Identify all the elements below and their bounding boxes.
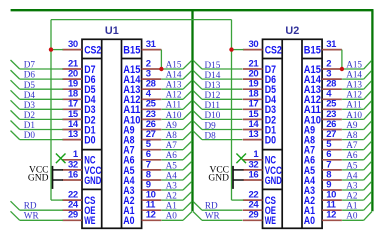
wire D0 to U1 with bus entry [11, 131, 64, 140]
svg-text:A3: A3 [346, 180, 358, 190]
wire U1 A0 to central bus with entry [162, 212, 192, 221]
wire U1 A2 to central bus with entry [162, 191, 192, 200]
svg-text:A0: A0 [346, 211, 358, 221]
U1 pin 25 A11 [123, 99, 161, 117]
svg-text:A9: A9 [166, 120, 178, 130]
U1 pin 9 A3 [123, 179, 161, 197]
U2 pin 29 WE [243, 210, 276, 228]
wire D15 from central bus to U2 [193, 60, 243, 69]
wire D4 to U1 with bus entry [11, 90, 64, 99]
svg-text:12: 12 [326, 210, 336, 221]
U1 pin 13 D0 [62, 129, 95, 147]
wire D11 from central bus to U2 [193, 101, 243, 110]
wire U1 A3 to central bus with entry [162, 181, 192, 190]
U2 pin 14 D1 [243, 119, 276, 136]
wire D1 to U1 with bus entry [11, 121, 64, 130]
IC U1 body [82, 39, 142, 228]
wire U2 A11 to right bus with entry [342, 101, 372, 110]
wire D10 from central bus to U2 [193, 111, 243, 120]
U1 pin 26 A9 [123, 119, 161, 136]
wire U1 A6 to central bus with entry [162, 151, 192, 160]
svg-text:GND: GND [84, 175, 101, 187]
U2 pin 2 A15 [304, 58, 342, 76]
wire U2 A14 to right bus with entry [342, 70, 372, 79]
wire CS2/CS chain U1 [51, 20, 63, 201]
svg-text:12: 12 [146, 210, 156, 221]
wire WR from central bus to U2 [193, 212, 243, 221]
central vertical bus [191, 10, 193, 211]
svg-text:13: 13 [249, 129, 259, 140]
U1 pin 4 A12 [123, 89, 161, 107]
wire U1 A13 to central bus with entry [162, 80, 192, 89]
svg-text:D7: D7 [24, 60, 36, 70]
U2 pin 5 A7 [304, 139, 342, 157]
U2 pin 8 A4 [304, 169, 342, 187]
U1 pin 1 NC [62, 149, 95, 167]
U2 pin 19 D5 [243, 79, 276, 97]
svg-text:U2: U2 [285, 25, 299, 37]
wire U1 A15 to central bus with entry [162, 60, 192, 69]
U1 pin 2 A15 [123, 58, 161, 76]
power net GND U1 [28, 174, 63, 184]
wire U2 A13 to right bus with entry [342, 80, 372, 89]
U1 pin 28 A13 [123, 79, 161, 97]
wire D6 to U1 with bus entry [11, 70, 64, 79]
svg-text:GND: GND [208, 174, 229, 184]
U1 pin 32 VCC [62, 159, 101, 177]
svg-text:WE: WE [265, 215, 277, 227]
U1 pin 11 A1 [123, 200, 161, 218]
U1 pin 10 A2 [123, 190, 161, 208]
wire RD from central bus to U2 [193, 201, 243, 210]
svg-text:B15: B15 [123, 45, 140, 57]
svg-text:D0: D0 [265, 135, 276, 147]
wire U2 A4 to right bus with entry [342, 171, 372, 180]
U1 pin 29 WE [62, 210, 95, 228]
wire D3 to U1 with bus entry [11, 100, 64, 109]
svg-text:A11: A11 [346, 100, 362, 110]
U1 pin 22 CS [62, 190, 95, 208]
U1 pin 18 D4 [62, 89, 96, 107]
power net GND U2 [208, 174, 243, 184]
wire U1 A11 to central bus with entry [162, 101, 192, 110]
svg-text:D12: D12 [205, 90, 221, 100]
junction U1 CS2 [49, 47, 53, 51]
wire U2 A5 to right bus with entry [342, 161, 372, 170]
svg-text:A6: A6 [346, 150, 358, 160]
wire D9 from central bus to U2 [193, 121, 243, 130]
svg-text:GND: GND [265, 175, 282, 187]
U2 pin 15 D2 [243, 109, 276, 127]
svg-text:D6: D6 [24, 70, 36, 80]
U2 pin 1 NC [243, 149, 276, 167]
wire RD to U1 with bus entry [11, 201, 64, 210]
U2 pin 25 A11 [304, 99, 342, 117]
U1 pin 6 A6 [123, 149, 161, 167]
U1 pin 27 A8 [123, 129, 161, 147]
U2 pin 12 A0 [304, 210, 342, 228]
wire D12 from central bus to U2 [193, 91, 243, 100]
U1 pin 20 D6 [62, 69, 95, 87]
svg-text:A0: A0 [304, 215, 315, 227]
svg-text:16: 16 [68, 169, 78, 180]
wire U2 A8 to right bus with entry [342, 131, 372, 140]
U1 pin 16 GND [62, 169, 101, 187]
power bracket U2 [232, 166, 234, 189]
junction U2 CS2 [229, 47, 233, 51]
svg-text:D15: D15 [205, 60, 221, 70]
svg-text:D5: D5 [24, 80, 36, 90]
wire U2 A0 to right bus with entry [342, 212, 372, 221]
U1 pin 24 OE [62, 200, 95, 218]
wire CS2/CS chain U2 [232, 20, 244, 201]
power net VCC U1 [29, 166, 63, 176]
U1 pin 19 D5 [62, 79, 95, 97]
svg-text:D14: D14 [205, 70, 221, 80]
svg-text:GND: GND [28, 174, 49, 184]
svg-text:A10: A10 [346, 110, 362, 120]
U2 pin 32 VCC [243, 159, 282, 177]
wire U1 A14 to central bus with entry [162, 70, 192, 79]
U2 pin 3 A14 [304, 69, 342, 87]
U2 pin 28 A13 [304, 79, 342, 97]
svg-text:WE: WE [84, 215, 96, 227]
wire U1 A7 to central bus with entry [162, 141, 192, 150]
svg-text:D10: D10 [205, 110, 221, 120]
svg-text:CS2: CS2 [84, 45, 101, 57]
wire U2 A2 to right bus with entry [342, 191, 372, 200]
svg-text:29: 29 [249, 210, 259, 221]
svg-text:D4: D4 [24, 90, 36, 100]
U2 pin 7 A5 [304, 159, 342, 177]
svg-text:A1: A1 [346, 201, 358, 211]
wire U1 A12 to central bus with entry [162, 91, 192, 100]
svg-text:A4: A4 [166, 170, 178, 180]
wire D7 to U1 with bus entry [11, 60, 64, 69]
U1 pin 30 CS2 [62, 39, 101, 57]
U1 pin 31 B15 [123, 39, 161, 57]
svg-text:A0: A0 [166, 211, 178, 221]
U2 pin 18 D4 [243, 89, 277, 107]
wire WR to U1 with bus entry [11, 211, 64, 220]
svg-text:CS2: CS2 [265, 45, 282, 57]
U2 pin 4 A12 [304, 89, 342, 107]
wire U1 A8 to central bus with entry [162, 131, 192, 140]
U1 pin 14 D1 [62, 119, 95, 136]
wire U1 A10 to central bus with entry [162, 111, 192, 120]
U2 pin 13 D0 [243, 129, 276, 147]
svg-text:A2: A2 [166, 191, 178, 201]
svg-text:A12: A12 [166, 90, 182, 100]
power bracket U1 [52, 166, 54, 189]
U2 pin 20 D6 [243, 69, 276, 87]
svg-text:A8: A8 [346, 130, 358, 140]
IC U2 body [263, 39, 323, 228]
wire U2 A3 to right bus with entry [342, 181, 372, 190]
U2 pin 30 CS2 [243, 39, 282, 57]
U2 pin 26 A9 [304, 119, 342, 136]
svg-text:29: 29 [68, 210, 78, 221]
no-connect X U1 pin 1 [56, 154, 66, 164]
svg-text:D3: D3 [24, 100, 36, 110]
svg-text:D0: D0 [24, 130, 36, 140]
U1 pin 5 A7 [123, 139, 161, 157]
svg-text:A12: A12 [346, 90, 362, 100]
U2 pin 9 A3 [304, 179, 342, 197]
U2 pin 23 A10 [304, 109, 342, 127]
svg-text:RD: RD [205, 200, 218, 210]
svg-text:A15: A15 [166, 59, 182, 69]
svg-text:WR: WR [205, 211, 221, 221]
wire D5 to U1 with bus entry [11, 80, 64, 89]
no-connect X U2 pin 1 [236, 154, 246, 164]
svg-text:A14: A14 [346, 70, 362, 80]
wire U2 A15 to right bus with entry [342, 60, 372, 69]
svg-text:A2: A2 [346, 191, 358, 201]
svg-text:A13: A13 [166, 80, 182, 90]
wire CS2 interconnect U1-U2 [51, 19, 232, 21]
svg-text:A9: A9 [346, 120, 358, 130]
right vertical bus [371, 10, 373, 211]
U1 pin 8 A4 [123, 169, 161, 187]
junction U2 A15 [340, 67, 344, 71]
svg-text:A8: A8 [166, 130, 178, 140]
svg-text:A4: A4 [346, 170, 358, 180]
svg-text:30: 30 [249, 39, 259, 50]
wire U2 A6 to right bus with entry [342, 151, 372, 160]
U2 pin 16 GND [243, 169, 282, 187]
svg-text:D0: D0 [84, 135, 95, 147]
svg-text:A15: A15 [346, 59, 362, 69]
wire D8 from central bus to U2 [193, 131, 243, 140]
wire U2 A10 to right bus with entry [342, 111, 372, 120]
svg-text:A3: A3 [166, 180, 178, 190]
svg-text:RD: RD [24, 200, 37, 210]
U2 pin 24 OE [243, 200, 276, 218]
U2 pin 17 D3 [243, 99, 276, 117]
svg-text:A10: A10 [166, 110, 182, 120]
svg-text:A5: A5 [166, 160, 178, 170]
U2 pin 10 A2 [304, 190, 342, 208]
wire D13 from central bus to U2 [193, 80, 243, 89]
svg-text:D9: D9 [205, 120, 217, 130]
svg-text:13: 13 [68, 129, 78, 140]
svg-text:U1: U1 [105, 25, 119, 37]
svg-text:A14: A14 [166, 70, 182, 80]
svg-text:D13: D13 [205, 80, 221, 90]
wire U2 pin31 to A15 [341, 50, 343, 69]
wire U1 A5 to central bus with entry [162, 161, 192, 170]
U1 pin 7 A5 [123, 159, 161, 177]
wire D14 from central bus to U2 [193, 70, 243, 79]
wire D2 to U1 with bus entry [11, 110, 64, 119]
svg-text:D1: D1 [24, 120, 36, 130]
U1 pin 12 A0 [123, 210, 161, 228]
U1 pin 21 D7 [62, 58, 95, 76]
U2 pin 27 A8 [304, 129, 342, 147]
U2 pin 22 CS [243, 190, 276, 208]
svg-text:A11: A11 [166, 100, 182, 110]
svg-text:31: 31 [146, 39, 157, 50]
U1 pin 3 A14 [123, 69, 161, 87]
svg-text:A7: A7 [346, 140, 358, 150]
svg-text:WR: WR [24, 211, 40, 221]
top horizontal bus [11, 9, 374, 11]
svg-text:A1: A1 [166, 201, 178, 211]
svg-text:A0: A0 [123, 215, 134, 227]
svg-text:A13: A13 [346, 80, 362, 90]
U2 pin 11 A1 [304, 200, 342, 218]
svg-text:A6: A6 [166, 150, 178, 160]
wire U2 A1 to right bus with entry [342, 201, 372, 210]
svg-text:D11: D11 [205, 100, 221, 110]
wire U1 A1 to central bus with entry [162, 201, 192, 210]
U2 pin 21 D7 [243, 58, 276, 76]
wire U1 pin31 to A15 [160, 50, 162, 69]
junction U1 A15 [159, 67, 163, 71]
power net VCC U2 [209, 166, 243, 176]
svg-text:A5: A5 [346, 160, 358, 170]
svg-text:16: 16 [249, 169, 259, 180]
wire U2 A7 to right bus with entry [342, 141, 372, 150]
svg-text:B15: B15 [304, 45, 321, 57]
U1 pin 17 D3 [62, 99, 95, 117]
U1 pin 15 D2 [62, 109, 95, 127]
wire U1 A9 to central bus with entry [162, 121, 192, 130]
svg-text:A7: A7 [166, 140, 178, 150]
wire U2 A9 to right bus with entry [342, 121, 372, 130]
svg-text:D2: D2 [24, 110, 36, 120]
U1 pin 23 A10 [123, 109, 161, 127]
svg-text:D8: D8 [205, 130, 217, 140]
wire U2 A12 to right bus with entry [342, 91, 372, 100]
svg-text:30: 30 [68, 39, 78, 50]
U2 pin 6 A6 [304, 149, 342, 167]
wire U1 A4 to central bus with entry [162, 171, 192, 180]
svg-text:31: 31 [326, 39, 337, 50]
U2 pin 31 B15 [304, 39, 342, 57]
